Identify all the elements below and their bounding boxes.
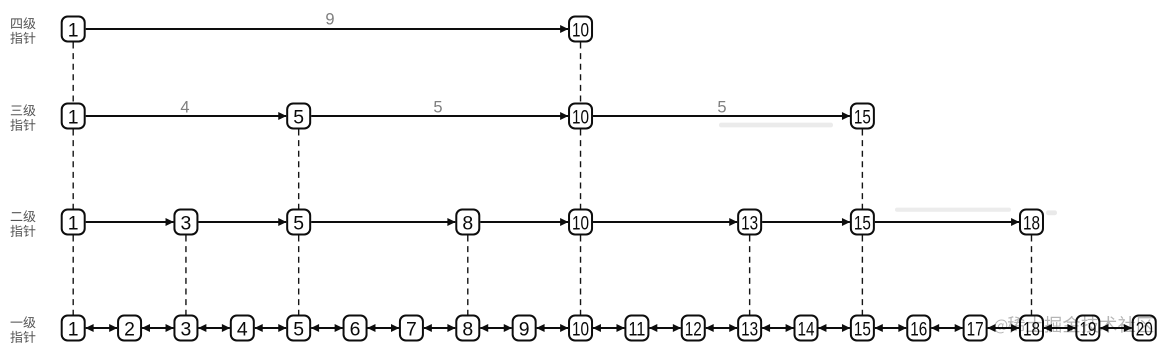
double arrow L1 8 to 9 <box>480 327 511 329</box>
node L1 value 9 <box>513 316 536 341</box>
double arrow L1 16 to 17 <box>931 327 962 329</box>
double arrow L1 6 to 7 <box>368 327 399 329</box>
svg-text:3: 3 <box>181 318 192 340</box>
node L3 value 10 <box>569 104 592 129</box>
double arrow L1 5 to 6 <box>311 327 342 329</box>
svg-text:2: 2 <box>124 318 135 340</box>
arrow L2 13 to 15 <box>762 221 850 223</box>
svg-text:12: 12 <box>685 318 702 340</box>
svg-text:16: 16 <box>910 318 927 340</box>
svg-text:18: 18 <box>1023 318 1040 340</box>
node L1 value 3 <box>174 316 197 341</box>
double arrow L1 1 to 2 <box>86 327 117 329</box>
node L2 value 13 <box>738 210 761 235</box>
node L1 value 11 <box>625 316 648 341</box>
node L2 value 5 <box>287 210 310 235</box>
node L1 value 13 <box>738 316 761 341</box>
svg-text:4: 4 <box>237 318 248 340</box>
row label 三级指针 <box>10 104 35 131</box>
faint watermark remnant row3 <box>719 123 833 128</box>
node L2 value 1 <box>62 210 85 235</box>
node L1 value 16 <box>907 316 930 341</box>
double arrow L1 4 to 5 <box>255 327 286 329</box>
node L2 value 15 <box>851 210 874 235</box>
svg-text:5: 5 <box>293 212 304 234</box>
svg-text:10: 10 <box>572 212 589 234</box>
svg-text:5: 5 <box>293 318 304 340</box>
node L1 value 4 <box>231 316 254 341</box>
dashed link col 1 L2-L1 <box>72 236 74 315</box>
svg-text:13: 13 <box>741 318 758 340</box>
svg-text:9: 9 <box>325 11 334 29</box>
double arrow L1 15 to 16 <box>875 327 906 329</box>
node L1 value 7 <box>400 316 423 341</box>
svg-text:1: 1 <box>68 106 79 128</box>
svg-text:8: 8 <box>462 318 473 340</box>
double arrow L1 17 to 18 <box>988 327 1019 329</box>
dashed link col 15 L2-L1 <box>861 236 863 315</box>
svg-text:18: 18 <box>1023 212 1040 234</box>
arrow L3 1 to 5 <box>86 115 286 117</box>
node L3 value 15 <box>851 104 874 129</box>
svg-text:14: 14 <box>798 318 815 340</box>
node L2 value 3 <box>174 210 197 235</box>
dashed link col 5 L2-L1 <box>298 236 300 315</box>
node L1 value 2 <box>118 316 141 341</box>
svg-text:3: 3 <box>181 212 192 234</box>
arrow L2 15 to 18 <box>875 221 1019 223</box>
double arrow L1 13 to 14 <box>762 327 793 329</box>
node L1 value 10 <box>569 316 592 341</box>
dashed link col 5 L3-L2 <box>298 130 300 209</box>
arrow L2 8 to 10 <box>480 221 568 223</box>
svg-text:17: 17 <box>967 318 984 340</box>
dashed link col 10 L3-L2 <box>580 130 582 209</box>
dashed link col 1 L3-L2 <box>72 130 74 209</box>
node L3 value 1 <box>62 104 85 129</box>
node L1 value 18 <box>1020 316 1043 341</box>
node L1 value 20 <box>1133 316 1156 341</box>
svg-text:15: 15 <box>854 318 871 340</box>
node L4 value 10 <box>569 17 592 42</box>
node L1 value 17 <box>964 316 987 341</box>
watermark @稀土掘金技术社区 <box>994 316 1153 334</box>
node L1 value 5 <box>287 316 310 341</box>
svg-text:1: 1 <box>68 212 79 234</box>
dashed link col 3 L2-L1 <box>185 236 187 315</box>
arrow L2 5 to 8 <box>311 221 455 223</box>
svg-text:8: 8 <box>462 212 473 234</box>
arrow L2 1 to 3 <box>86 221 174 223</box>
node L2 value 18 <box>1020 210 1043 235</box>
svg-text:4: 4 <box>180 98 189 116</box>
svg-text:10: 10 <box>572 106 589 128</box>
row label 一级指针 <box>10 316 35 343</box>
node L3 value 5 <box>287 104 310 129</box>
dashed link col 1 L4-L3 <box>72 43 74 103</box>
node L1 value 19 <box>1076 316 1099 341</box>
dashed link col 8 L2-L1 <box>467 236 469 315</box>
node L1 value 15 <box>851 316 874 341</box>
double arrow L1 11 to 12 <box>649 327 680 329</box>
node L1 value 12 <box>682 316 705 341</box>
arrow L3 5 to 10 <box>311 115 568 117</box>
svg-text:1: 1 <box>68 318 79 340</box>
svg-text:15: 15 <box>854 106 871 128</box>
dashed link col 15 L3-L2 <box>861 130 863 209</box>
faint watermark remnant row2 <box>895 208 1011 212</box>
node L2 value 10 <box>569 210 592 235</box>
double arrow L1 10 to 11 <box>593 327 624 329</box>
svg-text:13: 13 <box>741 212 758 234</box>
node L2 value 8 <box>456 210 479 235</box>
svg-text:10: 10 <box>572 19 589 41</box>
double arrow L1 9 to 10 <box>537 327 568 329</box>
dashed link col 10 L4-L3 <box>580 43 582 103</box>
row label 四级指针 <box>10 17 35 44</box>
arrow L2 3 to 5 <box>198 221 286 223</box>
dashed link col 13 L2-L1 <box>749 236 751 315</box>
svg-text:1: 1 <box>68 19 79 41</box>
node L1 value 6 <box>344 316 367 341</box>
double arrow L1 12 to 13 <box>706 327 737 329</box>
svg-text:19: 19 <box>1079 318 1096 340</box>
svg-text:6: 6 <box>350 318 361 340</box>
svg-text:10: 10 <box>572 318 589 340</box>
svg-text:15: 15 <box>854 212 871 234</box>
svg-text:11: 11 <box>628 318 645 340</box>
double arrow L1 14 to 15 <box>819 327 850 329</box>
double arrow L1 19 to 20 <box>1100 327 1131 329</box>
arrow L4 1 to 10 <box>86 28 568 30</box>
dashed link col 18 L2-L1 <box>1030 236 1032 315</box>
svg-text:5: 5 <box>293 106 304 128</box>
svg-text:5: 5 <box>717 98 726 116</box>
node L1 value 1 <box>62 316 85 341</box>
arrow L3 10 to 15 <box>593 115 850 117</box>
double arrow L1 2 to 3 <box>142 327 173 329</box>
svg-text:7: 7 <box>406 318 417 340</box>
double arrow L1 7 to 8 <box>424 327 455 329</box>
double arrow L1 18 to 19 <box>1044 327 1075 329</box>
dashed link col 10 L2-L1 <box>580 236 582 315</box>
double arrow L1 3 to 4 <box>198 327 229 329</box>
node L1 value 14 <box>795 316 818 341</box>
arrow L2 10 to 13 <box>593 221 737 223</box>
row label 二级指针 <box>10 210 35 237</box>
node L1 value 8 <box>456 316 479 341</box>
svg-text:9: 9 <box>519 318 530 340</box>
node L4 value 1 <box>62 17 85 42</box>
svg-text:5: 5 <box>433 98 442 116</box>
